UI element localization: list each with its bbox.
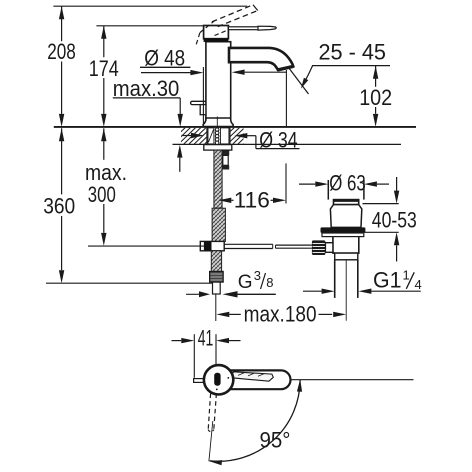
svg-text:360: 360 <box>43 194 75 219</box>
svg-text:4: 4 <box>415 277 422 292</box>
svg-text:Ø 63: Ø 63 <box>329 170 366 195</box>
svg-text:max.30: max.30 <box>113 76 180 101</box>
svg-text:G1: G1 <box>373 267 402 292</box>
svg-text:208: 208 <box>47 39 76 64</box>
svg-text:3: 3 <box>254 268 261 283</box>
svg-text:Ø 34: Ø 34 <box>259 128 298 153</box>
svg-text:300: 300 <box>88 182 116 207</box>
svg-text:25 - 45: 25 - 45 <box>319 40 387 65</box>
svg-text:8: 8 <box>266 275 273 290</box>
svg-text:40-53: 40-53 <box>372 207 417 232</box>
svg-text:41: 41 <box>198 326 214 351</box>
svg-text:102: 102 <box>359 85 392 110</box>
svg-text:95°: 95° <box>260 427 291 452</box>
svg-text:G: G <box>238 272 253 293</box>
svg-text:1: 1 <box>403 268 410 283</box>
svg-text:Ø 48: Ø 48 <box>144 46 185 71</box>
svg-text:116: 116 <box>234 187 270 212</box>
svg-text:max.180: max.180 <box>244 302 317 327</box>
